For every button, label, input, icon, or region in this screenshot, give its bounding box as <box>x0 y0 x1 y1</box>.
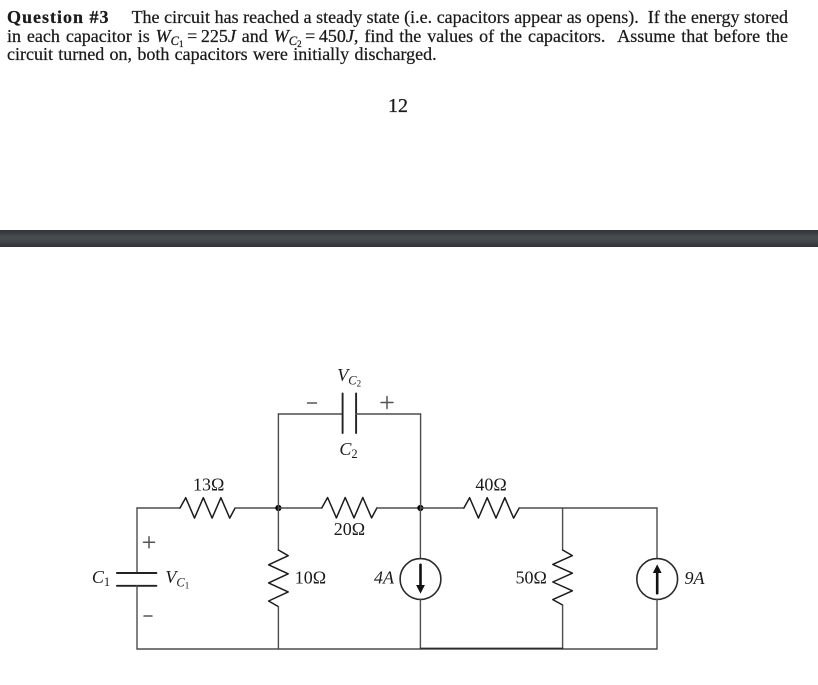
wire: node A to 20ohm <box>278 507 322 509</box>
wire: left branch bottom (C1 branch lower) <box>136 586 138 649</box>
svg-text:C2: C2 <box>339 439 357 461</box>
label 20ohm <box>334 519 365 539</box>
label C2 <box>339 439 357 461</box>
capacitor C1 <box>117 573 156 586</box>
wire: 4A branch lower <box>419 599 421 649</box>
plus sign at C1 <box>144 537 155 548</box>
node B <box>417 505 423 511</box>
resistor 13ohm <box>180 498 235 518</box>
page separator bar <box>0 230 818 247</box>
wire: 9A branch lower <box>656 599 658 649</box>
label VC1 <box>165 567 189 591</box>
resistor 10ohm <box>269 550 289 607</box>
label 10ohm <box>295 568 326 588</box>
label 40ohm <box>475 475 506 495</box>
svg-text:VC1: VC1 <box>165 567 189 591</box>
svg-text:10Ω: 10Ω <box>295 568 326 588</box>
svg-text:9A: 9A <box>685 568 706 588</box>
wire: 20ohm to node B <box>377 507 420 509</box>
wire: node B to 40ohm <box>420 507 464 509</box>
svg-text:20Ω: 20Ω <box>334 519 365 539</box>
current source 4A <box>400 559 441 600</box>
svg-text:40Ω: 40Ω <box>475 475 506 495</box>
wire: C2 branch top-left horizontal <box>278 413 342 415</box>
node A <box>275 505 281 511</box>
wire: 10ohm branch upper <box>277 508 279 550</box>
svg-text:VC2: VC2 <box>337 365 361 389</box>
wire: C2 branch left vertical <box>277 414 279 508</box>
question paragraph line 3 <box>7 44 437 65</box>
wire: C2 branch right vertical <box>420 414 422 508</box>
wire: 9A branch upper <box>656 508 658 559</box>
svg-text:4A: 4A <box>374 568 395 588</box>
wire: 10ohm branch lower <box>277 607 279 649</box>
label 50ohm <box>516 568 547 588</box>
question paragraph line 1 <box>7 7 788 28</box>
minus sign at C2 <box>308 402 317 404</box>
wire: 50ohm branch upper <box>562 508 564 550</box>
wire: C2 branch top-right horizontal <box>356 413 421 415</box>
svg-text:C1: C1 <box>92 567 110 589</box>
current source 9A <box>637 559 678 600</box>
label 9A <box>685 568 706 588</box>
svg-text:13Ω: 13Ω <box>193 475 224 495</box>
plus sign at C2 <box>381 397 393 409</box>
svg-text:50Ω: 50Ω <box>516 568 547 588</box>
wire: 40ohm to top-right corner <box>519 507 657 509</box>
label VC2 <box>337 365 361 389</box>
wire: left branch top (C1 branch upper) <box>136 508 138 573</box>
label 4A <box>374 568 395 588</box>
label 13ohm <box>193 475 224 495</box>
wire: bottom rail <box>137 648 657 650</box>
wire: 4A branch upper <box>419 508 421 559</box>
resistor 20ohm <box>322 498 377 518</box>
wire: top-left horizontal <box>137 507 180 509</box>
capacitor C2 <box>343 393 357 433</box>
question paragraph line 2 <box>7 26 788 47</box>
wire: doubled bottom segment <box>421 647 563 649</box>
wire: 13ohm to node A <box>235 507 278 509</box>
resistor 40ohm <box>464 498 519 518</box>
minus sign at C1 <box>144 615 152 617</box>
resistor 50ohm <box>553 550 573 605</box>
page number 12 <box>0 95 796 118</box>
label C1 <box>92 567 110 589</box>
wire: 50ohm branch lower <box>562 605 564 649</box>
